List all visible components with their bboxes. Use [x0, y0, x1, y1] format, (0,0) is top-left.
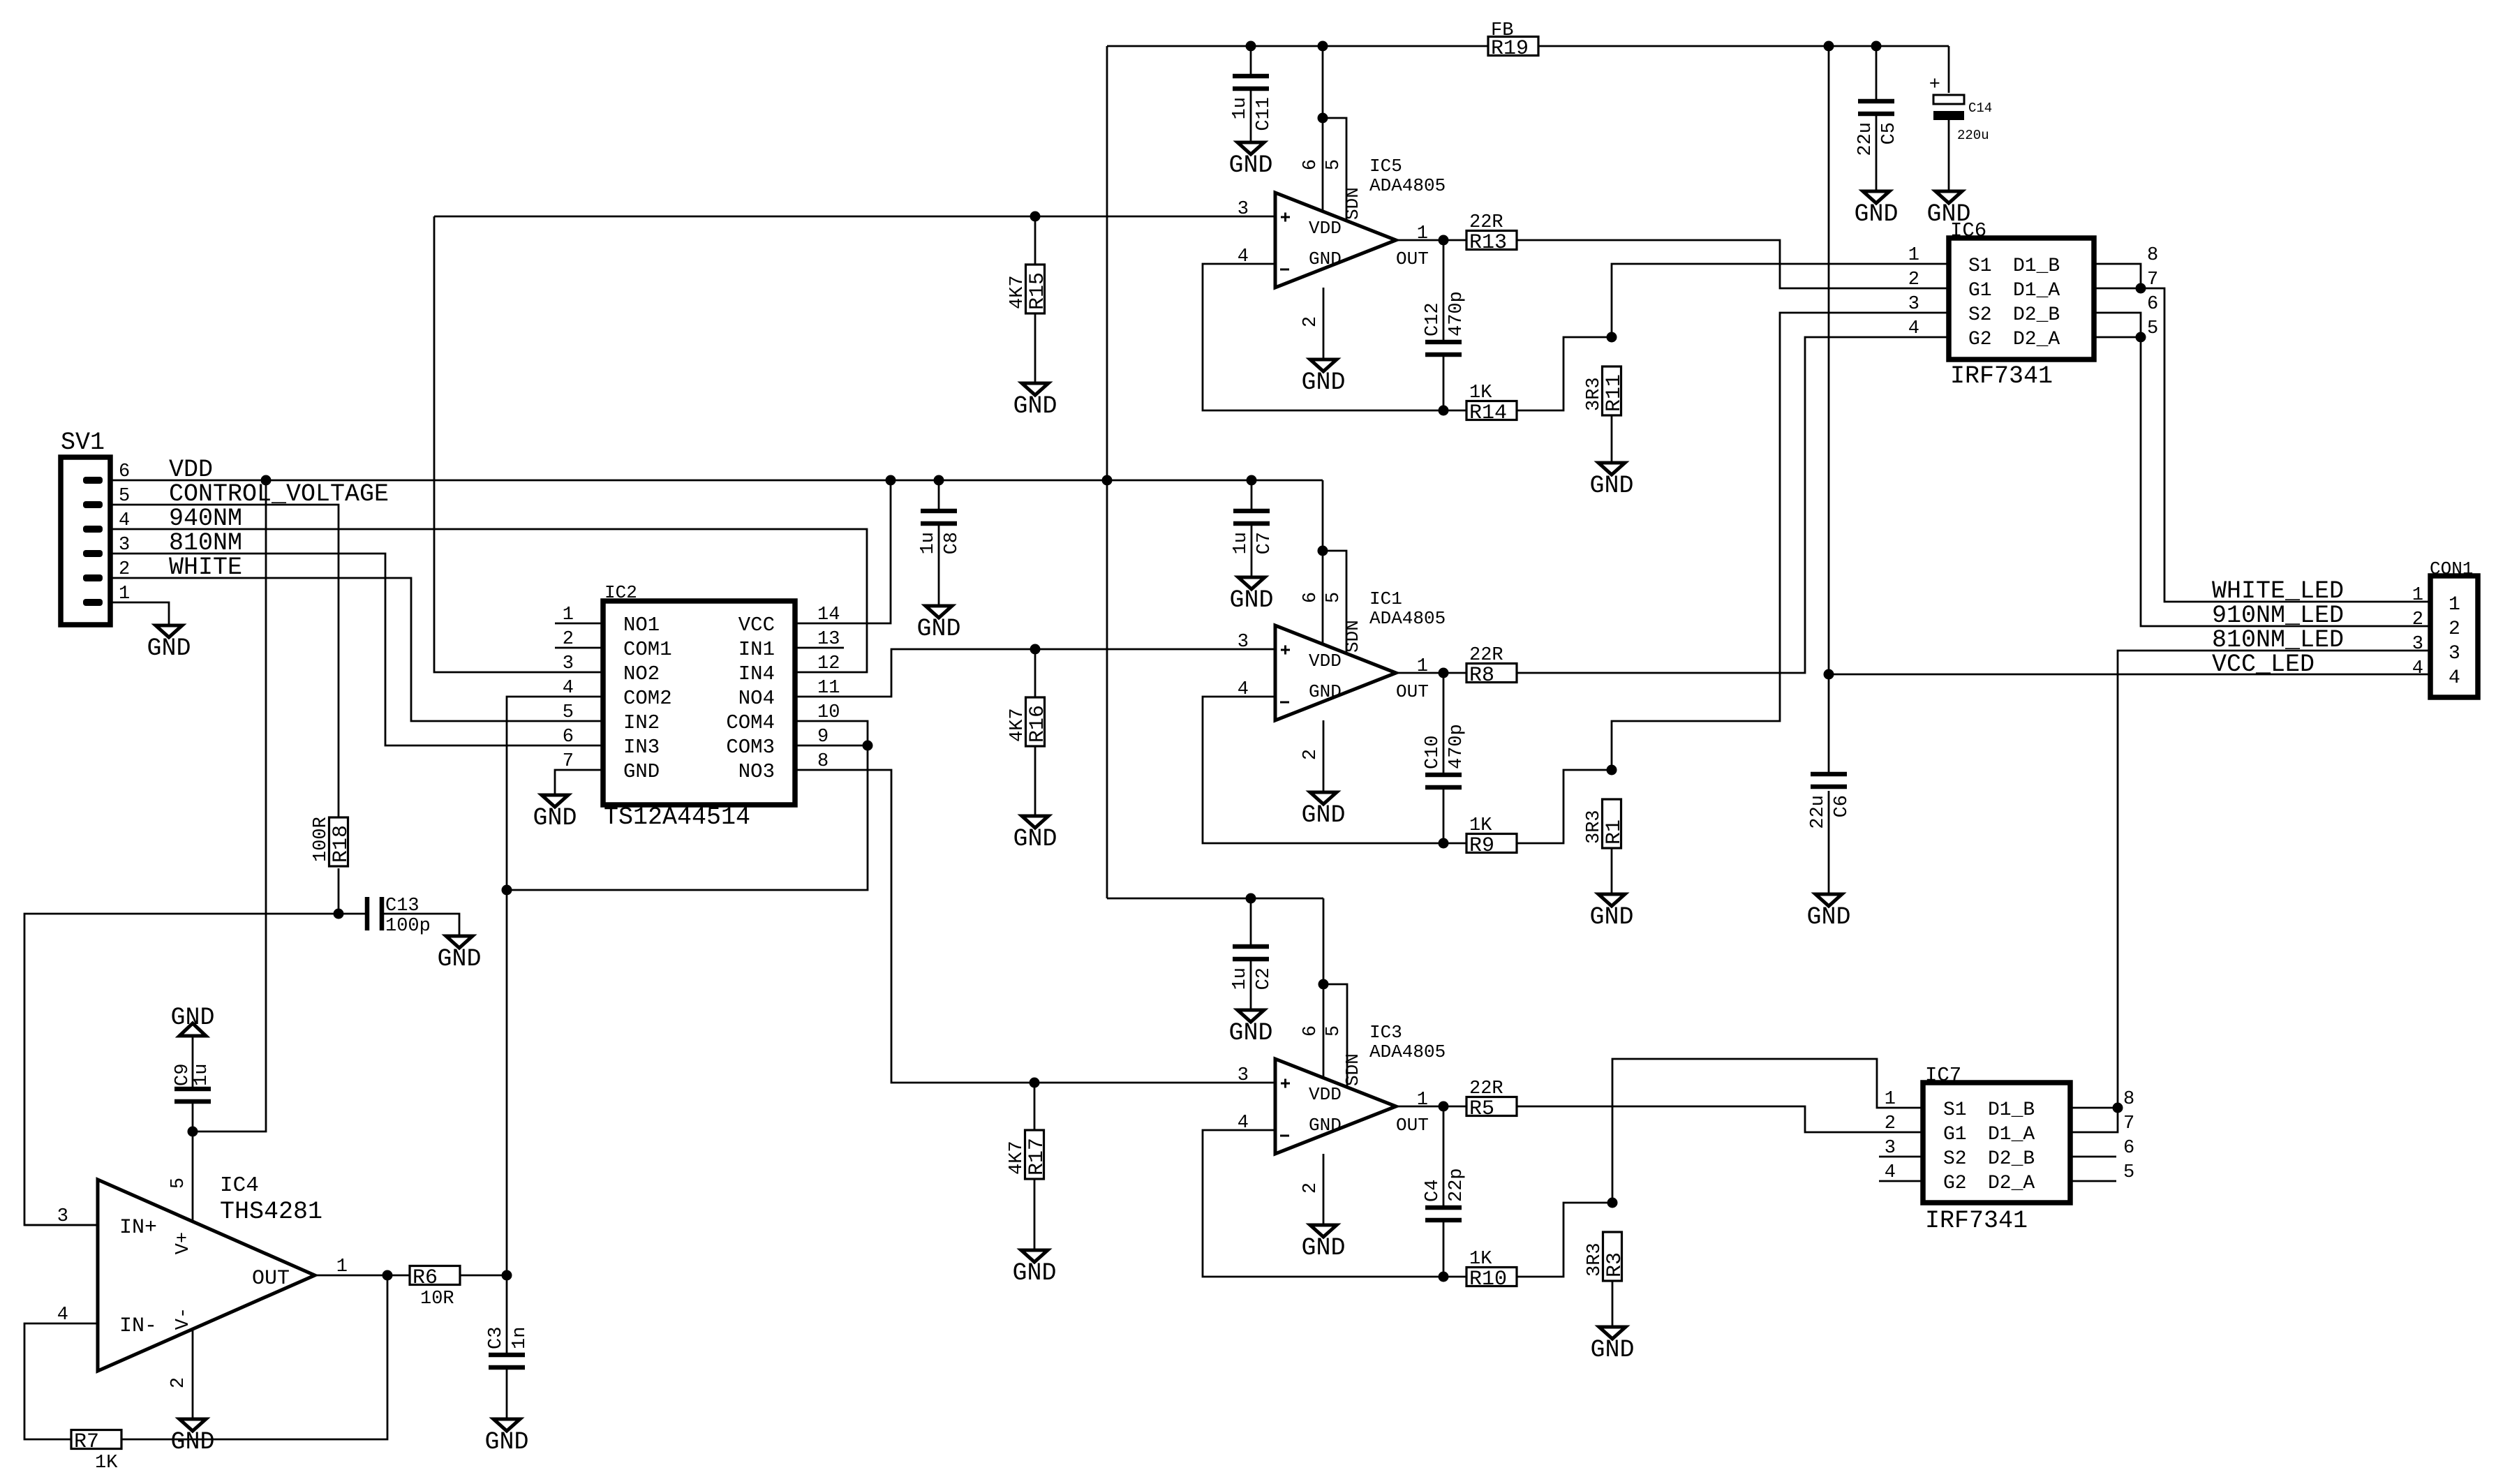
wire R10 to R3 node — [1517, 1203, 1612, 1277]
svg-text:4: 4 — [57, 1305, 68, 1326]
svg-text:1u: 1u — [1231, 532, 1251, 554]
capacitor C8 1u — [918, 511, 963, 554]
capacitor C3 1n — [486, 1327, 530, 1367]
svg-text:6: 6 — [563, 727, 574, 748]
wire LED VCC riser — [1828, 46, 1830, 772]
svg-text:1K: 1K — [1469, 1249, 1492, 1270]
svg-text:100p: 100p — [385, 916, 431, 937]
svg-text:R1: R1 — [1603, 819, 1626, 845]
junction top rail / C5 — [1871, 41, 1882, 52]
svg-text:+: + — [1929, 75, 1940, 96]
svg-text:3: 3 — [563, 653, 574, 674]
svg-text:1K: 1K — [1469, 383, 1492, 403]
wire R7 to IC4 -input — [24, 1323, 98, 1439]
wire C7 top lead — [1251, 480, 1253, 509]
wire IC4 output pin 1 — [315, 1275, 410, 1277]
wire IC7 D1_B jog pin 8 — [2070, 1107, 2118, 1109]
wire C8 top lead — [938, 480, 940, 509]
ground GND below R17 — [1012, 1250, 1056, 1287]
capacitor C9 1u — [174, 1089, 211, 1101]
junction R1 top node — [1607, 765, 1617, 776]
svg-text:GND: GND — [1309, 681, 1342, 702]
svg-text:THS4281: THS4281 — [220, 1198, 322, 1226]
wire IC2 NO4 to IC1 +input — [795, 649, 1275, 697]
wire IC2 COM3 to control node — [507, 745, 868, 890]
svg-text:V-: V- — [173, 1307, 194, 1330]
svg-text:1: 1 — [119, 584, 130, 604]
svg-text:TS12A44514: TS12A44514 — [604, 803, 750, 831]
svg-text:4: 4 — [119, 510, 130, 531]
svg-text:5: 5 — [1323, 1025, 1344, 1037]
svg-text:5: 5 — [2123, 1162, 2134, 1183]
wire IC3 output pin 1 — [1396, 1106, 1466, 1108]
svg-text:4: 4 — [563, 678, 574, 699]
wire R13 to IC6 G1 — [1517, 240, 1949, 288]
wire R5 to IC7 G1 — [1517, 1106, 1923, 1132]
svg-text:3: 3 — [119, 535, 130, 556]
svg-text:IC4: IC4 — [220, 1173, 259, 1198]
wire IC2 COM2 drop — [507, 697, 603, 1275]
wire R6 to control node — [460, 1275, 507, 1277]
svg-text:S1: S1 — [1943, 1099, 1967, 1121]
pin IC7-6 stub — [2070, 1156, 2116, 1158]
svg-text:1: 1 — [336, 1256, 348, 1277]
svg-text:GND: GND — [533, 804, 577, 832]
svg-text:7: 7 — [563, 751, 574, 772]
ground GND below IC5 pin 2 — [1301, 359, 1345, 396]
svg-text:220u: 220u — [1957, 128, 1989, 143]
wire C4 bottom lead — [1443, 1222, 1445, 1277]
resistor R9 1K — [1466, 815, 1517, 858]
wire WHITE from SV1 pin 2 — [110, 578, 603, 721]
svg-text:940NM: 940NM — [169, 505, 242, 533]
svg-text:1: 1 — [563, 604, 574, 625]
wire C14 top lead — [1948, 46, 1950, 93]
svg-text:R15: R15 — [1026, 272, 1050, 310]
svg-text:R9: R9 — [1469, 834, 1494, 858]
svg-text:810NM: 810NM — [169, 529, 242, 557]
svg-text:C11: C11 — [1254, 97, 1275, 131]
wire R1 bottom lead — [1611, 848, 1613, 894]
pin IC7-3 stub — [1879, 1156, 1923, 1158]
junction top rail / IC5 VDD riser — [1318, 41, 1328, 52]
connector CON1 4-pin — [2412, 558, 2478, 697]
ground GND below R3 — [1590, 1327, 1634, 1364]
node VDD label — [169, 456, 213, 484]
svg-text:D1_A: D1_A — [1988, 1124, 2035, 1145]
wire R18 bottom lead — [338, 868, 340, 914]
svg-text:4: 4 — [2449, 667, 2460, 689]
resistor R1 3R3 — [1584, 799, 1626, 848]
ground GND below R15 — [1013, 383, 1057, 420]
svg-text:GND: GND — [1589, 903, 1633, 931]
svg-text:5: 5 — [563, 702, 574, 723]
wire 940NM from SV1 pin 4 — [110, 529, 867, 672]
wire R15 bottom lead — [1034, 313, 1037, 383]
svg-text:GND: GND — [1589, 472, 1633, 500]
capacitor C6 22u — [1808, 774, 1852, 829]
svg-text:IN+: IN+ — [119, 1216, 157, 1240]
wire C8 bottom lead — [938, 526, 940, 606]
svg-text:1u: 1u — [191, 1064, 212, 1086]
svg-text:6: 6 — [2147, 294, 2158, 315]
ground GND below IC2 pin 7 — [533, 795, 577, 832]
svg-text:4K7: 4K7 — [1006, 1141, 1027, 1175]
svg-text:R5: R5 — [1469, 1097, 1494, 1121]
wire IC3 SDN jog pin 5 — [1323, 984, 1347, 1086]
svg-text:GND: GND — [170, 1428, 214, 1456]
resistor R6 10R — [410, 1266, 460, 1310]
svg-text:IC7: IC7 — [1925, 1064, 1961, 1087]
svg-text:C12: C12 — [1422, 302, 1443, 336]
svg-text:3: 3 — [1238, 632, 1249, 653]
svg-text:G2: G2 — [1968, 329, 1992, 350]
svg-text:GND: GND — [1013, 392, 1057, 420]
svg-text:SDN: SDN — [1342, 1053, 1363, 1086]
svg-text:OUT: OUT — [252, 1267, 290, 1291]
svg-text:VDD: VDD — [1309, 651, 1342, 671]
svg-text:22R: 22R — [1469, 645, 1503, 666]
ground GND below IC1 pin 2 — [1301, 792, 1345, 829]
svg-text:IRF7341: IRF7341 — [1925, 1207, 2028, 1235]
svg-text:FB: FB — [1491, 20, 1513, 41]
svg-text:SDN: SDN — [1342, 620, 1363, 653]
svg-text:GND: GND — [1012, 1259, 1056, 1287]
junction IC1 output / C10 — [1439, 668, 1449, 678]
svg-text:IC2: IC2 — [604, 582, 637, 603]
svg-text:COM2: COM2 — [623, 687, 672, 710]
svg-text:CONTROL_VOLTAGE: CONTROL_VOLTAGE — [169, 480, 389, 508]
wire C11 top lead — [1250, 46, 1252, 74]
resistor R8 22R — [1466, 645, 1517, 688]
svg-text:3: 3 — [1908, 294, 1919, 315]
svg-text:C10: C10 — [1422, 735, 1443, 769]
wire IC4 V+ pin — [192, 1131, 194, 1222]
junction IC5 +input / R15 — [1030, 212, 1041, 222]
svg-text:D1_A: D1_A — [2013, 280, 2060, 302]
ground GND below C14 — [1926, 191, 1970, 228]
wire R16 bottom lead — [1034, 746, 1037, 816]
svg-text:VCC_LED: VCC_LED — [2212, 651, 2315, 678]
wire R17 top lead — [1034, 1083, 1036, 1130]
svg-text:R7: R7 — [74, 1430, 99, 1454]
capacitor C5 22u — [1855, 101, 1900, 156]
svg-text:VDD: VDD — [1309, 218, 1342, 239]
svg-text:GND: GND — [1229, 586, 1273, 614]
svg-text:G2: G2 — [1943, 1173, 1967, 1194]
wire IC3 VDD riser pin 6 — [1323, 898, 1325, 1076]
wire supply row to IC3 block — [1107, 898, 1323, 900]
svg-text:C5: C5 — [1879, 122, 1900, 144]
junction COM2 drop / COM3-COM4 row — [502, 885, 512, 896]
svg-text:GND: GND — [1301, 1234, 1345, 1262]
capacitor C4 22p — [1422, 1168, 1467, 1220]
svg-text:IN3: IN3 — [623, 736, 660, 759]
wire CONTROL_VOLTAGE from SV1 pin 5 — [110, 505, 339, 817]
pin IC7-4 stub — [1879, 1180, 1923, 1182]
junction IC3 feedback / C4 — [1439, 1272, 1449, 1282]
wire C7 bottom lead — [1251, 526, 1253, 577]
wire IC1 VDD riser pin 6 — [1322, 480, 1324, 644]
wire IC6 D2_A to 910NM_LED — [2094, 337, 2430, 626]
pin IC7-5 stub — [2070, 1180, 2116, 1182]
wire C5 bottom lead — [1875, 116, 1878, 191]
svg-text:GND: GND — [1309, 1115, 1342, 1136]
ground GND below C2 — [1228, 1010, 1272, 1047]
svg-text:4: 4 — [2412, 658, 2423, 679]
svg-text:S2: S2 — [1968, 304, 1992, 326]
svg-text:GND: GND — [623, 760, 660, 783]
wire IC7 D1_A jog pin 7 — [2070, 1108, 2118, 1132]
wire R16 top lead — [1034, 649, 1037, 697]
svg-text:2: 2 — [1300, 316, 1321, 327]
wire SV1 pin 1 to ground — [110, 602, 169, 625]
junction IC2 COM3/COM4 — [863, 741, 873, 751]
svg-text:470p: 470p — [1446, 724, 1467, 769]
svg-text:8: 8 — [2123, 1089, 2134, 1110]
svg-text:3R3: 3R3 — [1584, 1242, 1605, 1277]
junction IC3 VDD / SDN — [1318, 979, 1329, 990]
wire C10 bottom lead — [1443, 789, 1445, 843]
wire IC6 D1_B jog pin 8 — [2094, 264, 2141, 288]
svg-text:2: 2 — [1300, 1182, 1321, 1194]
node VCC_LED label — [2212, 651, 2315, 678]
svg-text:6: 6 — [2123, 1138, 2134, 1159]
svg-text:GND: GND — [1301, 369, 1345, 396]
svg-text:D1_B: D1_B — [2013, 255, 2060, 277]
wire C9 top lead — [192, 1036, 194, 1087]
wire IC6 D2_B jog pin 6 — [2094, 313, 2141, 337]
wire IC4 supply drop — [193, 480, 266, 1131]
resistor R3 3R3 — [1584, 1232, 1627, 1281]
svg-text:C8: C8 — [942, 532, 963, 554]
wire IC6 S2 to R1 node — [1612, 313, 1949, 770]
svg-text:R17: R17 — [1025, 1138, 1049, 1175]
wire IC6 S1 to R11 node — [1612, 264, 1949, 337]
wire IC5 pin 2 to ground — [1323, 288, 1325, 359]
junction IC3 supply row / C2 — [1246, 893, 1256, 904]
svg-text:3: 3 — [2449, 643, 2460, 665]
svg-text:IN1: IN1 — [738, 638, 775, 661]
wire C6 bottom lead — [1828, 791, 1830, 894]
svg-text:NO3: NO3 — [738, 760, 775, 783]
svg-text:GND: GND — [1228, 151, 1272, 179]
wire IC2 NO2 to IC5 +input riser — [434, 216, 603, 672]
svg-text:8: 8 — [817, 751, 829, 772]
svg-text:7: 7 — [2147, 269, 2158, 290]
pin IC2-2 stub — [555, 647, 603, 649]
ground GND below C3 — [484, 1419, 528, 1456]
transistor IC6 IRF7341 dual N-MOSFET — [1908, 219, 2158, 390]
svg-text:IC5: IC5 — [1369, 156, 1402, 177]
svg-text:SV1: SV1 — [61, 429, 105, 457]
svg-text:OUT: OUT — [1396, 681, 1429, 702]
svg-text:IRF7341: IRF7341 — [1950, 362, 2053, 390]
svg-text:GND: GND — [1309, 248, 1342, 269]
svg-text:IN2: IN2 — [623, 711, 660, 734]
svg-text:2: 2 — [2412, 609, 2423, 630]
svg-text:OUT: OUT — [1396, 248, 1429, 269]
node 810NM_LED label — [2212, 626, 2344, 654]
ground GND below R11 — [1589, 463, 1633, 500]
svg-text:GND: GND — [1013, 825, 1057, 853]
svg-text:6: 6 — [1300, 592, 1321, 603]
svg-text:VDD: VDD — [169, 456, 213, 484]
junction IC1 +input / R16 — [1030, 644, 1041, 655]
svg-text:11: 11 — [817, 678, 840, 699]
ground GND below SV1 pin 1 — [147, 625, 191, 662]
svg-text:5: 5 — [119, 486, 130, 507]
wire FB net top rail from VDD riser to R19 — [1107, 45, 1488, 47]
wire IC3 pin 2 to ground — [1323, 1154, 1325, 1225]
svg-text:GND: GND — [1590, 1336, 1634, 1364]
svg-text:ADA4805: ADA4805 — [1369, 1041, 1446, 1062]
junction IC1 feedback / C10 — [1439, 838, 1449, 849]
svg-text:1: 1 — [1417, 223, 1428, 244]
svg-text:10: 10 — [817, 702, 840, 723]
svg-text:2: 2 — [168, 1377, 189, 1388]
svg-text:5: 5 — [1323, 159, 1344, 170]
svg-text:R14: R14 — [1469, 401, 1507, 425]
svg-text:D2_B: D2_B — [2013, 304, 2060, 326]
ground GND below C13 — [437, 936, 481, 973]
ground GND below R16 — [1013, 816, 1057, 853]
wire IC6 G2 from R8 — [1517, 337, 1949, 673]
svg-text:2: 2 — [563, 629, 574, 650]
svg-text:GND: GND — [484, 1428, 528, 1456]
svg-text:22u: 22u — [1855, 122, 1876, 156]
svg-text:D2_B: D2_B — [1988, 1148, 2035, 1170]
resistor R18 100R — [311, 817, 353, 866]
svg-text:9: 9 — [817, 727, 829, 748]
op-amp IC1 ADA4805 — [1238, 588, 1446, 760]
ground GND below C7 — [1229, 577, 1273, 614]
svg-text:22R: 22R — [1469, 1078, 1503, 1099]
svg-text:3: 3 — [2412, 634, 2423, 655]
svg-text:ADA4805: ADA4805 — [1369, 608, 1446, 629]
svg-text:GND: GND — [1806, 903, 1850, 931]
svg-text:6: 6 — [1300, 1025, 1321, 1037]
svg-text:R13: R13 — [1469, 231, 1507, 255]
ground GND below IC3 pin 2 — [1301, 1225, 1345, 1262]
junction VDD / IC4 supply drop — [261, 475, 272, 486]
wire IC6 D1_A to WHITE_LED — [2094, 288, 2430, 602]
wire IC1 feedback from pin 4 — [1203, 697, 1466, 843]
junction control node / C13 — [334, 909, 344, 919]
wire C3 top lead — [506, 1275, 508, 1353]
junction VDD / FB riser — [1102, 475, 1113, 486]
svg-text:3R3: 3R3 — [1584, 810, 1605, 844]
svg-text:8: 8 — [2147, 245, 2158, 266]
svg-text:1K: 1K — [1469, 815, 1492, 836]
svg-text:OUT: OUT — [1396, 1115, 1429, 1136]
svg-text:1u: 1u — [1230, 97, 1251, 119]
svg-text:5: 5 — [1323, 592, 1344, 603]
svg-text:NO1: NO1 — [623, 614, 660, 637]
junction top rail / C11 — [1246, 41, 1256, 52]
wire IC2 VCC riser pin 14 — [795, 480, 891, 623]
svg-text:R11: R11 — [1603, 374, 1626, 412]
resistor R11 3R3 — [1584, 366, 1626, 415]
svg-text:4K7: 4K7 — [1007, 708, 1028, 742]
op-amp IC5 ADA4805 — [1238, 156, 1446, 327]
junction IC4 output / R7 loop — [382, 1270, 393, 1281]
svg-text:GND: GND — [147, 635, 191, 662]
svg-text:IC1: IC1 — [1369, 588, 1402, 609]
wire LED supply rail from R19 to C14 — [1538, 45, 1949, 47]
wire C4 top lead — [1443, 1106, 1445, 1205]
svg-text:IN4: IN4 — [738, 662, 775, 685]
wire IC5 feedback from pin 4 — [1203, 264, 1466, 410]
svg-text:C14: C14 — [1968, 101, 1992, 116]
svg-text:COM4: COM4 — [726, 711, 775, 734]
svg-text:CON1: CON1 — [2430, 558, 2473, 579]
wire VDD rail from SV1 pin 6 — [110, 480, 1323, 482]
svg-text:COM3: COM3 — [726, 736, 775, 759]
junction IC4 V+ / C9 — [188, 1127, 198, 1137]
junction VDD / C7 — [1247, 475, 1257, 486]
junction IC3 +input / R17 — [1030, 1078, 1040, 1088]
svg-text:WHITE: WHITE — [169, 554, 242, 581]
svg-text:22R: 22R — [1469, 212, 1503, 233]
svg-text:IN-: IN- — [119, 1314, 157, 1338]
svg-text:NO4: NO4 — [738, 687, 775, 710]
node WHITE label — [169, 554, 242, 581]
pin IC2-13 stub — [795, 647, 844, 649]
wire IC5 VDD riser pin 6 — [1322, 46, 1324, 211]
svg-text:COM1: COM1 — [623, 638, 672, 661]
wire IC1 pin 2 to ground — [1323, 720, 1325, 792]
wire IC5 SDN jog pin 5 — [1323, 118, 1346, 220]
svg-text:7: 7 — [2123, 1113, 2134, 1134]
junction IC6 D2 node — [2136, 332, 2146, 343]
svg-text:IC6: IC6 — [1950, 219, 1986, 242]
wire IC5 output pin 1 — [1396, 239, 1466, 242]
svg-text:C4: C4 — [1422, 1180, 1443, 1202]
svg-text:100R: 100R — [311, 817, 332, 862]
node CONTROL_VOLTAGE label — [169, 480, 389, 508]
svg-text:5: 5 — [168, 1178, 189, 1189]
wire IC2 pin 7 to ground — [555, 770, 603, 795]
svg-text:3: 3 — [1885, 1138, 1896, 1159]
svg-text:6: 6 — [119, 461, 130, 482]
svg-text:1: 1 — [2449, 594, 2460, 616]
svg-text:1u: 1u — [1230, 967, 1251, 990]
junction IC5 output / C12 — [1439, 235, 1449, 246]
svg-text:6: 6 — [1300, 159, 1321, 170]
svg-text:13: 13 — [817, 629, 840, 650]
ground GND below C11 — [1228, 142, 1272, 179]
wire C2 top lead — [1250, 898, 1252, 944]
wire R9 to R1 node — [1517, 770, 1612, 843]
wire C10 top lead — [1443, 673, 1445, 773]
svg-text:D2_A: D2_A — [2013, 329, 2060, 350]
svg-text:GND: GND — [1228, 1019, 1272, 1047]
svg-text:IC3: IC3 — [1369, 1022, 1402, 1043]
wire C5 top lead — [1875, 46, 1878, 99]
ground GND below IC4 pin 2 — [170, 1419, 214, 1456]
capacitor C7 1u — [1231, 511, 1275, 554]
svg-text:D2_A: D2_A — [1988, 1173, 2035, 1194]
capacitor C14 220u polarized — [1929, 75, 1992, 143]
svg-text:470p: 470p — [1446, 291, 1467, 336]
junction IC1 VDD / SDN — [1318, 546, 1328, 556]
junction IC7 D1 node — [2113, 1103, 2123, 1113]
wire C12 top lead — [1443, 240, 1445, 340]
svg-text:R16: R16 — [1026, 705, 1050, 743]
wire IC5 noninverting input from IC2 NO2 — [434, 216, 1275, 218]
wire IC4 +input pin 3 — [24, 1224, 98, 1226]
